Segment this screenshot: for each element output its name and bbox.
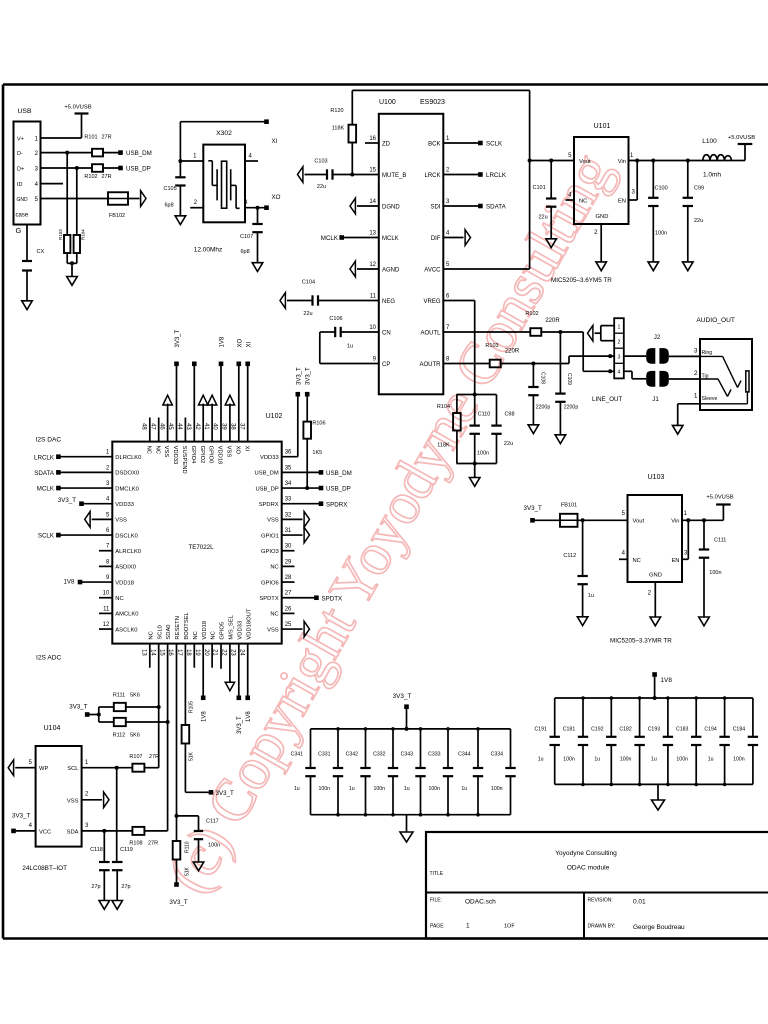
svg-text:R106: R106 <box>312 421 325 427</box>
svg-text:DIF: DIF <box>431 236 441 242</box>
svg-text:C111: C111 <box>714 538 726 544</box>
wire U103 GND <box>654 582 656 617</box>
svg-text:+5.0VUSB: +5.0VUSB <box>728 135 755 141</box>
arrow VSS (U102 pin39) <box>225 395 234 441</box>
svg-text:ODAC module: ODAC module <box>567 865 610 872</box>
resistor R110 51K (RESETN pullup) <box>173 841 191 882</box>
ground (U103) <box>650 617 661 626</box>
inductor L100 1.0mh <box>702 138 731 179</box>
svg-text:3: 3 <box>617 354 620 360</box>
node SCLK (U102) <box>38 533 112 540</box>
section label I2S DAC <box>36 437 62 444</box>
ground (C107) <box>252 263 263 272</box>
svg-text:R107: R107 <box>129 754 142 760</box>
wire U102 pin13 stub <box>149 644 151 668</box>
ground (C111) <box>699 617 710 626</box>
ground (C105) <box>175 216 186 225</box>
svg-text:USB_DP: USB_DP <box>326 486 351 493</box>
svg-text:D+: D+ <box>17 167 24 173</box>
wire U102 pin21 stub <box>220 644 222 669</box>
resistor R111 5K6 <box>113 693 140 712</box>
svg-text:C184: C184 <box>733 727 746 733</box>
svg-text:1u: 1u <box>294 786 300 792</box>
svg-text:U102: U102 <box>266 413 283 420</box>
wire LINE_OUT pin3 to J2 <box>624 355 646 357</box>
wire VREG <box>443 301 474 395</box>
node 3V3_T (I2C pullups) <box>69 704 89 717</box>
wire SCL0 (U102 pin14) <box>157 644 161 768</box>
svg-text:220R: 220R <box>545 318 560 324</box>
arrow VSS (U102 pin25) <box>282 621 310 637</box>
resistor R106 1K5 <box>303 396 325 488</box>
svg-text:J1: J1 <box>652 396 659 403</box>
svg-text:XI: XI <box>246 341 252 347</box>
crystal X302 12.00Mhz <box>194 130 245 254</box>
svg-text:12: 12 <box>369 262 376 268</box>
wire X302 pin2 stub <box>190 200 203 208</box>
capacitor C193 1u <box>648 698 673 784</box>
svg-text:NC: NC <box>193 631 199 639</box>
svg-text:ASDIX0: ASDIX0 <box>115 565 136 571</box>
svg-text:VDD18OUT: VDD18OUT <box>246 608 252 639</box>
capacitor C104 22u <box>302 280 318 318</box>
svg-text:5K6: 5K6 <box>130 693 140 699</box>
svg-text:VSS: VSS <box>226 446 232 458</box>
node 3V3_T (U102 pin45) <box>174 329 181 441</box>
svg-text:26: 26 <box>285 606 292 612</box>
wire U102 pin20 stub <box>211 644 213 668</box>
svg-text:GND: GND <box>17 197 29 203</box>
wire MCLK <box>344 237 379 239</box>
svg-text:case: case <box>16 213 29 219</box>
wire U102 pin18 stub <box>193 644 195 668</box>
svg-text:118K: 118K <box>437 443 450 449</box>
capacitor C342 1u <box>346 729 371 815</box>
svg-text:AMCLK0: AMCLK0 <box>115 612 138 618</box>
svg-text:C194: C194 <box>704 727 717 733</box>
wire U102 pin7 stub <box>99 550 112 552</box>
wire USB pin4 (ID) stub <box>41 183 64 185</box>
svg-text:22u: 22u <box>504 441 513 447</box>
arrow AGND (left) <box>350 261 355 277</box>
svg-text:XO: XO <box>272 194 281 201</box>
svg-text:ASCLK0: ASCLK0 <box>115 627 137 633</box>
svg-text:C103: C103 <box>314 159 327 165</box>
svg-text:CX: CX <box>37 249 45 255</box>
svg-text:U100: U100 <box>379 99 396 106</box>
arrow MUTE_B (left) <box>298 167 303 183</box>
svg-text:MIC5205–3.3YMR TR: MIC5205–3.3YMR TR <box>610 638 672 645</box>
svg-text:VDD18: VDD18 <box>217 446 223 465</box>
node USB_DM <box>118 150 152 157</box>
svg-text:R120: R120 <box>330 108 343 114</box>
ferrite bead FB101 <box>560 503 578 527</box>
svg-text:XI: XI <box>272 138 278 145</box>
svg-text:C183: C183 <box>676 727 689 733</box>
svg-text:3V3_T: 3V3_T <box>306 367 312 385</box>
svg-text:34: 34 <box>285 481 292 487</box>
connector AUDIO_OUT jack <box>694 317 752 410</box>
wire EN loop (U101) <box>629 161 638 201</box>
wire X302 pin4 stub <box>245 154 258 162</box>
svg-text:XO: XO <box>234 446 240 455</box>
svg-text:3V3_T: 3V3_T <box>58 497 76 504</box>
svg-text:Vout: Vout <box>579 159 591 165</box>
svg-text:C107: C107 <box>240 234 253 240</box>
svg-text:Sleeve: Sleeve <box>702 396 718 402</box>
ground (C117) <box>193 862 204 871</box>
svg-text:C341: C341 <box>291 752 304 758</box>
svg-text:NC: NC <box>154 446 160 454</box>
capacitor C194 1u <box>704 698 729 784</box>
svg-text:V+: V+ <box>17 137 24 143</box>
resistor R120 118K <box>330 90 356 174</box>
svg-text:DSCLK0: DSCLK0 <box>115 533 138 539</box>
svg-text:I2S DAC: I2S DAC <box>36 437 62 444</box>
capacitor C191 1u <box>534 698 559 784</box>
svg-text:RESETN: RESETN <box>175 616 181 640</box>
svg-text:35: 35 <box>285 465 292 471</box>
svg-text:22u: 22u <box>694 218 703 224</box>
wire LINE_OUT pin4 to J1 <box>624 371 646 379</box>
svg-text:27R: 27R <box>148 841 158 847</box>
svg-text:FB102: FB102 <box>109 213 125 219</box>
svg-text:C98: C98 <box>504 412 514 418</box>
svg-text:1.0mh: 1.0mh <box>703 172 721 179</box>
svg-text:AOUTR: AOUTR <box>420 362 442 368</box>
svg-text:C181: C181 <box>563 727 576 733</box>
svg-text:BCK: BCK <box>428 142 440 148</box>
svg-text:13: 13 <box>141 649 147 656</box>
svg-text:22u: 22u <box>539 215 548 221</box>
capacitor C108 2200p <box>528 364 550 425</box>
ground (C99) <box>683 262 694 271</box>
svg-text:FB101: FB101 <box>561 503 577 509</box>
wire BOOTSEL (U102 pin17) <box>184 644 186 725</box>
svg-text:ID: ID <box>17 182 23 188</box>
IC U104 24LC08BT-IOT <box>22 725 89 872</box>
svg-text:100n: 100n <box>477 451 489 457</box>
svg-text:VDD33: VDD33 <box>260 455 279 461</box>
arrow VSS (U102 pin5) <box>85 512 113 528</box>
power +5.0VUSB (USB) <box>64 105 91 139</box>
svg-text:SCL: SCL <box>67 766 79 772</box>
svg-text:C193: C193 <box>648 727 661 733</box>
wire MUTE_B <box>305 173 379 177</box>
connector USB <box>14 108 41 235</box>
svg-text:C342: C342 <box>346 752 359 758</box>
svg-text:11: 11 <box>370 294 377 300</box>
svg-text:George Boudreau: George Boudreau <box>633 924 685 931</box>
svg-text:C343: C343 <box>401 752 414 758</box>
svg-text:LINE_OUT: LINE_OUT <box>592 396 622 403</box>
svg-text:C334: C334 <box>491 752 504 758</box>
svg-text:33: 33 <box>285 497 292 503</box>
resistor R112 5K6 <box>113 718 140 739</box>
svg-text:NEG: NEG <box>382 299 395 305</box>
wire 3V3 bank rails <box>311 727 511 816</box>
wire EN loop (U103) <box>682 520 688 559</box>
wire AVCC top rail <box>352 90 529 269</box>
svg-text:R111: R111 <box>113 693 125 699</box>
svg-text:100n: 100n <box>676 757 688 763</box>
capacitor C98 22u <box>491 395 514 464</box>
node 1V8 (U102 pin9) <box>63 579 112 586</box>
svg-text:SPDTX: SPDTX <box>259 596 278 602</box>
svg-text:3: 3 <box>694 348 698 355</box>
svg-text:CN: CN <box>382 331 391 337</box>
svg-text:MIC5205–3.6YM5 TR: MIC5205–3.6YM5 TR <box>551 277 612 284</box>
node XO (U102 pin38) <box>237 338 244 441</box>
wire DGND <box>357 205 379 207</box>
svg-text:Ring: Ring <box>702 350 713 356</box>
svg-text:GPIO2: GPIO2 <box>199 446 205 464</box>
svg-text:R104: R104 <box>437 404 450 410</box>
svg-text:C192: C192 <box>591 727 604 733</box>
svg-text:C108: C108 <box>540 372 546 384</box>
svg-text:WP: WP <box>39 766 48 772</box>
wire R112 to SDA0 <box>99 721 168 723</box>
regulator U101 MIC5205-3.6YM5 <box>551 123 636 284</box>
svg-text:NC: NC <box>145 446 151 454</box>
wire Vin (U101) <box>629 159 724 163</box>
svg-text:27: 27 <box>285 591 292 597</box>
svg-text:ALRCLK0: ALRCLK0 <box>115 549 141 555</box>
capacitor C333 100n <box>428 729 453 815</box>
node SPDTX (U102) <box>282 595 342 602</box>
power +5.0VUSB (U103) <box>706 495 733 521</box>
wire J1 to AUDIO_OUT Tip <box>669 378 700 380</box>
capacitor C181 100n <box>563 698 588 784</box>
svg-text:VDD33: VDD33 <box>237 621 243 640</box>
svg-text:+5.0VUSB: +5.0VUSB <box>706 495 733 501</box>
wire SDA0 (U102 pin15) <box>166 644 170 831</box>
wire USB pin2 (D-) <box>41 152 119 154</box>
svg-text:10: 10 <box>103 591 110 597</box>
svg-text:Vin: Vin <box>671 519 679 525</box>
capacitor C341 1u <box>291 729 316 815</box>
svg-text:1u: 1u <box>347 344 353 350</box>
svg-text:G: G <box>16 226 22 235</box>
capacitor C106 1u (CN-CP) <box>329 316 353 350</box>
svg-text:GPIO0: GPIO0 <box>208 446 214 464</box>
node 3V3_T (RESETN) <box>169 882 187 906</box>
svg-text:4: 4 <box>617 370 620 376</box>
wire Sleeve to ground <box>678 404 700 426</box>
svg-text:1: 1 <box>466 923 470 930</box>
svg-text:C99: C99 <box>694 186 704 192</box>
capacitor C344 1u <box>458 729 483 815</box>
ferrite bead FB102 <box>108 192 128 219</box>
node MCLK (U100) <box>321 235 344 242</box>
svg-text:Vin: Vin <box>618 159 626 165</box>
svg-text:C109: C109 <box>566 373 572 385</box>
capacitor C332 100n <box>373 729 398 815</box>
wire pullup common <box>89 707 101 722</box>
capacitor C110 100n <box>470 395 491 464</box>
svg-text:1V8: 1V8 <box>661 677 673 684</box>
svg-text:0.01: 0.01 <box>633 899 646 906</box>
svg-text:SUSPEND: SUSPEND <box>181 446 187 474</box>
svg-text:27R: 27R <box>149 754 159 760</box>
wire U102 pin47 stub <box>158 418 160 442</box>
svg-text:USB_DP: USB_DP <box>126 166 151 173</box>
svg-text:GPIO3: GPIO3 <box>261 549 279 555</box>
svg-text:VSS: VSS <box>267 627 279 633</box>
section label I2S ADC <box>36 655 62 662</box>
resistor R103 220R (AOUTR) <box>485 343 519 367</box>
svg-text:NC: NC <box>270 612 278 618</box>
svg-text:2: 2 <box>617 339 620 345</box>
wire X302 pin1 <box>180 154 203 162</box>
wire U102 pin11 stub <box>99 612 112 614</box>
svg-text:SDA: SDA <box>67 830 79 836</box>
svg-text:NC: NC <box>148 631 154 639</box>
svg-text:DGND: DGND <box>382 205 400 211</box>
arrow DIF (right) <box>443 230 470 246</box>
svg-text:U103: U103 <box>648 474 665 481</box>
svg-text:TE7022L: TE7022L <box>188 544 214 551</box>
svg-text:3V3_T: 3V3_T <box>237 716 243 734</box>
resistor R108 27R <box>129 827 158 847</box>
node SCLK (U100 BCK) <box>443 141 503 148</box>
svg-text:SPDRX: SPDRX <box>326 501 347 508</box>
junction on D- line <box>65 151 69 155</box>
svg-text:C100: C100 <box>655 186 668 192</box>
IC U102 TE7022L <box>103 413 292 656</box>
svg-text:100n: 100n <box>620 757 632 763</box>
svg-text:LRCK: LRCK <box>424 173 440 179</box>
svg-text:C110: C110 <box>478 412 491 418</box>
ground (1V8 bank) <box>652 800 665 810</box>
resistor R105 51K (BOOTSEL pullup) <box>182 701 195 792</box>
connector LINE_OUT <box>592 318 624 403</box>
wire U102 pin26 stub <box>282 612 295 614</box>
svg-text:SDI: SDI <box>430 205 440 211</box>
svg-text:C191: C191 <box>534 727 547 733</box>
svg-text:AGND: AGND <box>382 268 400 274</box>
svg-text:C331: C331 <box>318 752 331 758</box>
svg-text:12.00Mhz: 12.00Mhz <box>194 247 223 254</box>
resistor R102 220R (AOUTL) <box>525 311 560 336</box>
svg-text:12: 12 <box>103 622 110 628</box>
svg-text:NC: NC <box>115 596 123 602</box>
wire U100 pin16 ZD stub <box>365 142 379 144</box>
wire AOUTR <box>443 354 614 365</box>
svg-text:USB: USB <box>18 108 32 115</box>
svg-text:1u: 1u <box>588 593 594 599</box>
wire U102 pin12 stub <box>99 628 112 630</box>
junction C107 tap <box>256 206 260 210</box>
svg-text:EN: EN <box>618 199 626 205</box>
svg-text:48: 48 <box>141 423 147 430</box>
wire U102 pin30 stub <box>282 550 295 552</box>
svg-text:1u: 1u <box>651 757 657 763</box>
junction C101 tap <box>549 159 553 163</box>
power +5.0VUSB (L100) <box>728 135 755 161</box>
svg-text:1u: 1u <box>538 757 544 763</box>
wire LINE_OUT pins 1-2 to AGND <box>595 326 615 341</box>
capacitor C184 100n <box>733 698 758 784</box>
node 3V3_T (BOOTSEL) <box>185 790 234 797</box>
arrow VSS (U102 pin32) <box>282 512 310 528</box>
svg-text:2200p: 2200p <box>536 405 551 411</box>
wire RESETN (U102 pin16) <box>175 644 179 841</box>
svg-text:GPIO6: GPIO6 <box>261 580 279 586</box>
wire U102 pin10 stub <box>99 597 112 599</box>
node USB_DP <box>118 166 151 173</box>
capacitor C107 <box>240 208 263 255</box>
capacitor C103 22u <box>314 159 332 191</box>
svg-text:R105: R105 <box>189 701 195 713</box>
resistor R104 (vertical) <box>74 229 86 253</box>
svg-text:MCLK: MCLK <box>37 486 55 493</box>
svg-text:USB_DM: USB_DM <box>326 470 352 477</box>
svg-text:3V3_T: 3V3_T <box>296 367 302 385</box>
svg-text:100n: 100n <box>655 231 667 237</box>
wire U101 NC stub <box>566 199 575 201</box>
svg-text:USB_DM: USB_DM <box>126 150 152 157</box>
svg-text:SPDTX: SPDTX <box>322 595 343 602</box>
ground (C118) <box>99 901 110 910</box>
svg-text:51K: 51K <box>189 751 195 761</box>
svg-text:I2S ADC: I2S ADC <box>36 655 62 662</box>
wire FB101 to Vout <box>578 518 628 522</box>
svg-text:R103: R103 <box>485 343 498 349</box>
ground (C119) <box>112 901 123 910</box>
svg-text:SDATA: SDATA <box>34 470 55 477</box>
node 3V3_T (cap bank) <box>393 693 412 731</box>
node GPIO4 pull (U102 pin43) <box>192 362 197 442</box>
svg-text:GPIO1: GPIO1 <box>261 533 279 539</box>
svg-text:2: 2 <box>694 370 698 377</box>
svg-text:VSS: VSS <box>67 798 79 804</box>
svg-text:VCC: VCC <box>39 830 51 836</box>
svg-text:AVCC: AVCC <box>424 268 441 274</box>
arrow GPIO1 (U102 pin31) <box>282 527 310 543</box>
resistor R101 27R <box>84 135 111 157</box>
svg-text:SPDRX: SPDRX <box>259 502 279 508</box>
jack contact J1 <box>646 371 669 403</box>
ground (C101) <box>546 239 557 248</box>
wire Vout (U101) <box>530 160 574 162</box>
svg-text:Yoyodyne Consulting: Yoyodyne Consulting <box>555 850 617 857</box>
ground (USB case) <box>22 301 33 310</box>
svg-text:100n: 100n <box>733 757 745 763</box>
svg-text:28: 28 <box>285 575 292 581</box>
svg-text:R104: R104 <box>80 229 85 240</box>
resistor R103 (vertical) <box>58 229 70 253</box>
svg-text:GPIO5: GPIO5 <box>220 622 226 640</box>
node SDATA (U102) <box>34 470 112 477</box>
svg-text:6p8: 6p8 <box>165 203 174 209</box>
svg-text:36: 36 <box>285 450 292 456</box>
svg-text:27p: 27p <box>121 884 130 890</box>
capacitor C331 100n <box>318 729 343 815</box>
svg-text:GND: GND <box>649 573 662 579</box>
capacitor C192 1u <box>591 698 616 784</box>
svg-text:VSS: VSS <box>163 446 169 458</box>
wire 1V8 bank rails <box>555 696 753 786</box>
ground (C100) <box>648 262 659 271</box>
capacitor CX <box>22 249 44 271</box>
svg-text:22u: 22u <box>303 311 312 317</box>
svg-text:ES9023: ES9023 <box>420 99 445 106</box>
wire U102 pin48 stub <box>149 418 151 442</box>
svg-text:SDA0: SDA0 <box>166 624 172 639</box>
svg-text:MCLK: MCLK <box>382 236 399 242</box>
svg-text:VDD18: VDD18 <box>202 621 208 640</box>
